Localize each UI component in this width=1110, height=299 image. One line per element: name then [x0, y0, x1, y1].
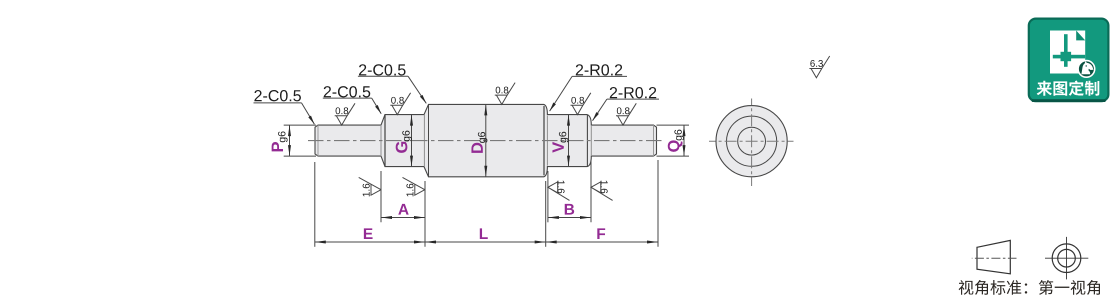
general surface finish 6.3 — [809, 56, 829, 78]
shaft centerline — [308, 140, 664, 142]
extension lines for length dimensions — [314, 162, 316, 247]
roughness 1.6 on D/V shoulder face — [548, 182, 570, 201]
badge text — [1037, 81, 1100, 96]
badge document folded corner — [1076, 31, 1085, 41]
dimension F — [546, 241, 658, 243]
first-angle projection: end view circles — [1052, 244, 1081, 273]
note 2-C0.5 (G/D shoulder chamfer) — [359, 64, 406, 75]
shoulder / chamfer edge lines — [317, 125, 319, 156]
badge crosshair cross — [1053, 34, 1085, 67]
dimension G g6 — [411, 115, 413, 167]
first-angle projection: frustum side view — [977, 240, 1010, 273]
surface finish 0.8 on D — [495, 83, 515, 105]
dimension V g6 — [568, 115, 570, 167]
badge knight glyph — [1081, 61, 1093, 74]
dimension L — [425, 241, 546, 243]
end view middle circle (G) — [727, 116, 777, 166]
dimension Q g6 (right end diameter) — [657, 125, 690, 156]
dimension B — [548, 217, 591, 219]
dimension A — [381, 217, 425, 219]
roughness 1.6 on G/D shoulder face — [403, 177, 425, 195]
dimension E — [315, 241, 425, 243]
roughness 1.6 on V/Q shoulder face — [591, 182, 613, 201]
dimension P g6 (left end diameter) — [284, 125, 316, 156]
end view circles crosshair — [1045, 237, 1088, 280]
frustum centerline — [972, 257, 1017, 259]
shaft body (stepped shaft side view) — [315, 104, 657, 176]
note 2-R0.2 (V/Q shoulder radius) — [610, 87, 656, 98]
surface finish 0.8 on V — [571, 93, 591, 115]
caption: viewing-angle standard, first angle — [959, 280, 1100, 295]
surface finish 0.8 on P — [335, 103, 355, 125]
end view inner circle (P) — [738, 127, 766, 155]
dimension D g6 — [485, 104, 487, 176]
note 2-R0.2 (D/V shoulder radius) — [576, 64, 622, 75]
surface finish 0.8 on G — [390, 93, 410, 115]
note 2-C0.5 (P/G shoulder chamfer) — [324, 86, 371, 97]
surface finish 0.8 on Q — [616, 103, 636, 125]
roughness 1.6 on P/G shoulder face — [359, 177, 381, 195]
end view crosshair centerlines — [709, 140, 794, 142]
badge knight circle — [1078, 61, 1095, 78]
badge document sheet — [1050, 31, 1085, 74]
end view outer circle (D) — [716, 106, 787, 177]
badge: custom-drawing (green icon) — [1029, 19, 1109, 102]
note 2-C0.5 (left end chamfer) — [254, 90, 301, 101]
